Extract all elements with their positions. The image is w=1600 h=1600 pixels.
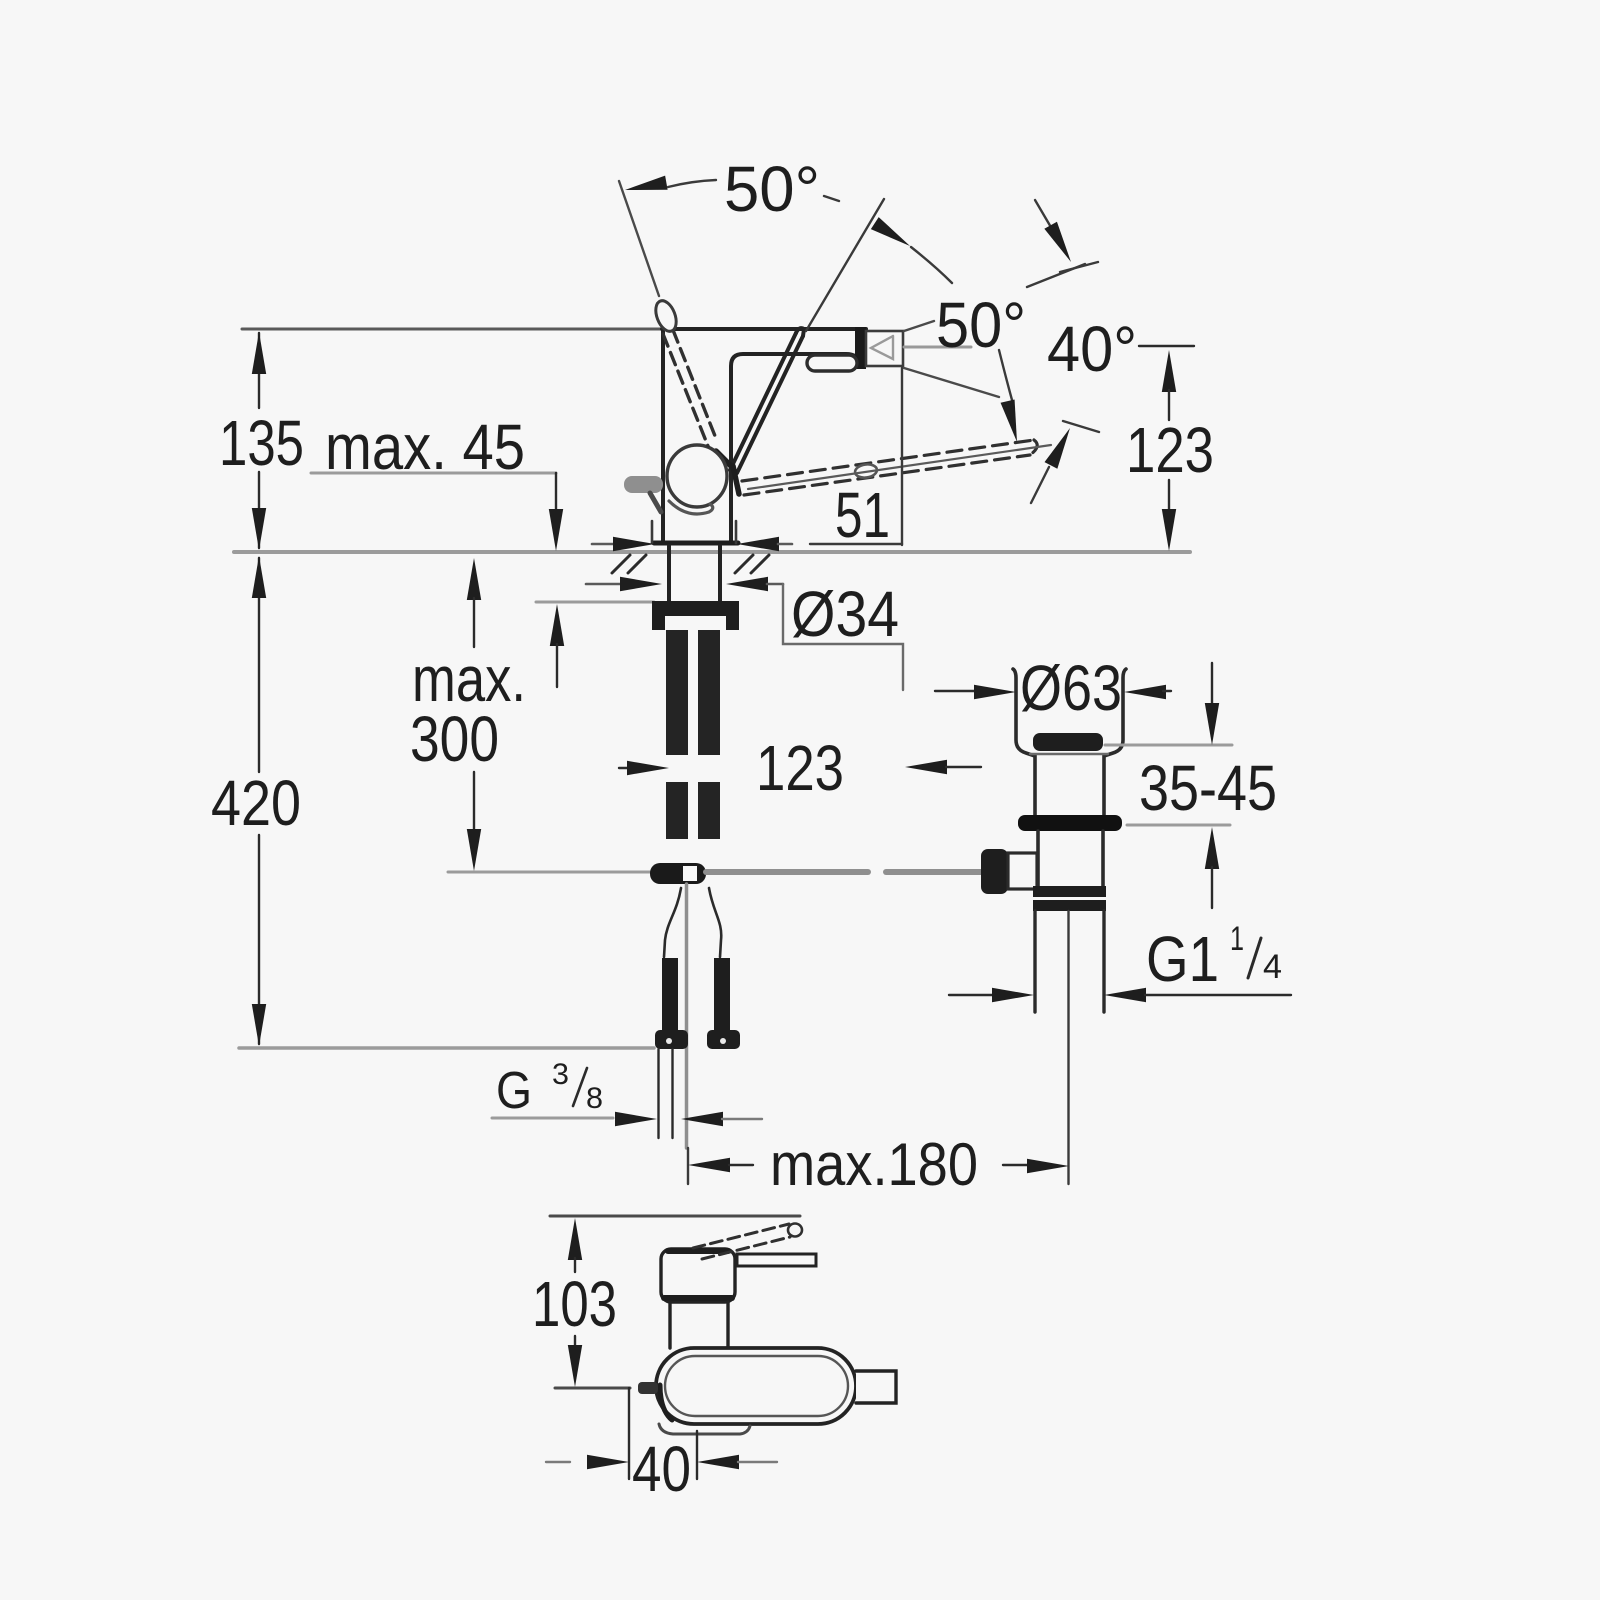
svg-text:1: 1	[1230, 920, 1244, 958]
dimension 123 centre	[619, 767, 631, 769]
lowered lever axis line	[748, 445, 1051, 489]
svg-text:50°: 50°	[724, 153, 820, 225]
aerator flow arrow	[871, 336, 893, 359]
spout lower lip	[807, 355, 857, 371]
plan obround body	[656, 1348, 856, 1424]
handle attachment	[650, 493, 661, 512]
svg-text:max. 45: max. 45	[325, 411, 525, 483]
dimension O63	[935, 690, 977, 692]
svg-text:3: 3	[552, 1058, 569, 1091]
lever vertical axis line	[806, 199, 884, 331]
plan handle dashed	[693, 1224, 790, 1259]
dashed lever lowered position	[742, 440, 1037, 495]
50 deg second arc lower segment with arrowhead	[999, 350, 1012, 400]
dimension 123 right tick	[1139, 345, 1194, 347]
dimension G1 1/4	[949, 994, 993, 996]
O34 label leader bracket	[783, 584, 903, 690]
knob link	[1008, 853, 1037, 889]
svg-text:35-45: 35-45	[1139, 752, 1277, 824]
shank through counter	[667, 546, 671, 601]
plan base plate	[659, 1424, 750, 1434]
plan view top reference line	[550, 1215, 800, 1218]
40 deg upper tick	[1060, 262, 1098, 272]
dimension max.300 lower arrow	[473, 772, 475, 832]
pivot circle	[667, 445, 727, 507]
drain plug cap	[1033, 733, 1103, 751]
spout lowered axis line	[904, 368, 999, 397]
svg-text:123: 123	[1126, 414, 1214, 486]
lever strut (normal position)	[730, 328, 804, 473]
mounting flange	[652, 601, 739, 616]
drain lower nut	[1033, 886, 1106, 897]
drain tailpiece	[1033, 911, 1036, 1012]
drain gasket	[1018, 815, 1122, 831]
plan view lower reference line	[555, 1387, 630, 1390]
dimension 135	[258, 333, 260, 548]
plan spout stub	[856, 1371, 896, 1403]
svg-text:123: 123	[756, 732, 844, 804]
extension line of up-left position	[619, 181, 659, 296]
spout aerator box	[866, 331, 903, 366]
dimension G3/8	[492, 1117, 613, 1120]
plan handle bar	[737, 1254, 816, 1266]
dimension 123 right	[1162, 350, 1176, 392]
dimension 35-45	[1105, 744, 1232, 747]
svg-text:300: 300	[410, 703, 499, 775]
plan neck	[668, 1302, 671, 1348]
obround left cap emphasis	[660, 1385, 672, 1420]
dimension max.180	[688, 1158, 730, 1172]
base extension stubs	[651, 521, 654, 543]
supply hose end left	[662, 958, 678, 1033]
svg-text:G1: G1	[1146, 923, 1219, 995]
plan handle knob	[788, 1224, 802, 1237]
40 deg lower tick	[1063, 421, 1099, 432]
horizontal pull rod	[706, 869, 868, 875]
50 deg second arc upper segment	[1027, 264, 1085, 287]
hose necks	[664, 888, 681, 957]
dashed lever up-left position	[663, 330, 717, 446]
threaded shank upper	[666, 630, 688, 755]
dimension 420	[258, 558, 260, 1044]
tailpiece centerline	[1067, 911, 1069, 1184]
spout outlet dark bar	[855, 327, 866, 369]
drain body below gasket	[1036, 831, 1040, 888]
svg-text:8: 8	[586, 1082, 603, 1115]
dimension 40	[628, 1388, 630, 1479]
bottom reference line 420	[239, 1046, 654, 1050]
lowered lever joint oval	[854, 463, 878, 479]
hose connection tee	[650, 863, 706, 884]
40 deg upper arc with arrowhead	[1035, 200, 1062, 246]
leader to 50 deg label	[904, 321, 934, 331]
cap seat line	[1030, 753, 1108, 755]
pivot joint dark	[716, 451, 739, 494]
svg-text:max.180: max.180	[770, 1131, 978, 1198]
svg-text:4: 4	[1263, 948, 1282, 986]
svg-text:40: 40	[632, 1433, 691, 1505]
supply level line	[448, 871, 652, 874]
dashed lever tip oval	[652, 298, 680, 334]
svg-text:420: 420	[211, 767, 301, 839]
top reference line	[242, 328, 662, 331]
40 deg lower arrowhead	[1045, 425, 1077, 469]
dimension max.300 upper arrow	[467, 558, 481, 600]
svg-text:51: 51	[835, 479, 890, 551]
threaded shank lower	[666, 782, 688, 839]
svg-text:G: G	[496, 1062, 532, 1120]
vertical pull rod	[685, 884, 689, 1148]
plan body block	[661, 1249, 735, 1302]
counter hatch marks	[612, 555, 769, 573]
counter underside line	[536, 601, 654, 604]
faucet body front view	[662, 329, 866, 543]
G3/8 tube	[657, 1049, 659, 1138]
spout tip extension line	[901, 368, 903, 545]
side handle	[624, 476, 663, 493]
plan supply nub	[638, 1382, 658, 1394]
dimension 103	[568, 1218, 582, 1260]
supply hose end right	[714, 958, 730, 1033]
counter top line	[234, 550, 1190, 554]
50 deg arc right segment with arrowhead	[824, 196, 839, 201]
svg-text:Ø34: Ø34	[791, 578, 899, 650]
dimension max.45 lower arrow	[550, 604, 564, 646]
svg-text:40°: 40°	[1047, 313, 1137, 385]
spout axis grey line	[904, 346, 971, 349]
50 deg arc left segment with arrowhead	[624, 176, 668, 197]
svg-text:50°: 50°	[936, 289, 1026, 361]
svg-text:103: 103	[532, 1268, 617, 1340]
dimension max.45 leader	[311, 472, 556, 475]
lever lower swoosh	[669, 501, 713, 514]
dimension 51 line	[810, 543, 902, 545]
svg-text:Ø63: Ø63	[1020, 652, 1122, 724]
rod side knob	[981, 849, 1008, 894]
faucet base bottom edge	[654, 541, 738, 546]
drain pop-up waste outer cup	[1013, 669, 1035, 818]
dimension O34 shank arrows	[586, 583, 620, 586]
svg-text:135: 135	[219, 407, 304, 479]
dimension O34 base arrows	[592, 543, 614, 546]
